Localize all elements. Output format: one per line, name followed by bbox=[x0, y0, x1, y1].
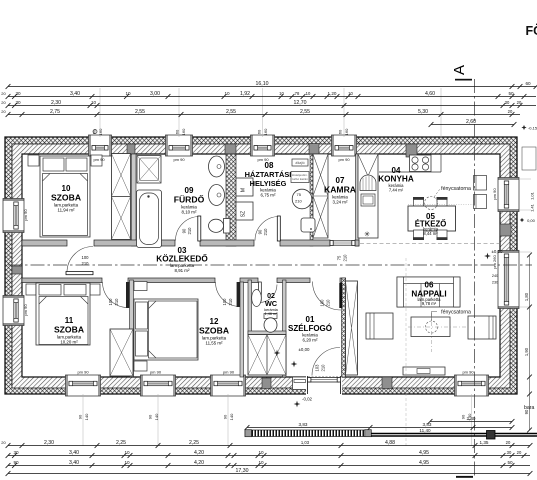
svg-text:8,10 m²: 8,10 m² bbox=[182, 210, 197, 215]
svg-text:10,20 m²: 10,20 m² bbox=[60, 340, 78, 345]
svg-text:3,40: 3,40 bbox=[70, 91, 80, 97]
svg-text:210: 210 bbox=[343, 254, 348, 262]
svg-text:10: 10 bbox=[124, 460, 130, 465]
partition P4 kamra/kitchen bbox=[356, 154, 360, 246]
shaft P3 utility/kamra with X bbox=[310, 154, 328, 246]
svg-text:210: 210 bbox=[295, 199, 302, 204]
kitchen counter vertical bbox=[358, 154, 378, 239]
wall exterior inner hatched band bbox=[5, 137, 517, 394]
guide verticals top bbox=[99, 88, 101, 137]
bath label bbox=[174, 186, 205, 215]
WC bottom wall bbox=[248, 331, 286, 335]
bath washbasins bbox=[209, 156, 225, 206]
svg-text:pm 90: pm 90 bbox=[23, 209, 28, 221]
svg-text:75: 75 bbox=[337, 255, 342, 260]
level marker szelfogo bbox=[274, 347, 310, 356]
grey block bottom wall nappali bbox=[382, 377, 392, 389]
svg-text:2,40: 2,40 bbox=[467, 416, 476, 421]
svg-text:1,03: 1,03 bbox=[301, 440, 310, 445]
svg-text:pm 90: pm 90 bbox=[257, 157, 269, 162]
svg-text:10: 10 bbox=[279, 91, 284, 96]
WC label bbox=[264, 293, 278, 316]
kamra label bbox=[324, 176, 356, 205]
living coffee table bbox=[408, 313, 468, 352]
svg-text:10: 10 bbox=[124, 450, 130, 455]
section line horizontal bbox=[8, 264, 532, 266]
svg-text:álkajtó: álkajtó bbox=[295, 161, 304, 165]
svg-text:6,20 m²: 6,20 m² bbox=[303, 338, 318, 343]
utility label bbox=[245, 161, 292, 198]
corridor label bbox=[156, 246, 208, 273]
door WC bbox=[259, 282, 278, 303]
svg-text:SZOBA: SZOBA bbox=[54, 325, 84, 335]
scale bar bbox=[245, 430, 371, 437]
svg-text:10: 10 bbox=[258, 450, 264, 455]
dimension row R4 bbox=[1, 440, 532, 448]
partition P5 room11/room12 bbox=[130, 280, 134, 377]
window W2 top (bath) bbox=[166, 135, 193, 156]
living TV board bbox=[403, 367, 445, 375]
utility boiler circle bbox=[292, 189, 312, 209]
grey block top wall P1 bbox=[127, 144, 135, 154]
svg-text:8,44 m²: 8,44 m² bbox=[423, 231, 438, 236]
WC toilet bbox=[264, 314, 277, 333]
svg-text:10: 10 bbox=[91, 100, 97, 105]
svg-text:4,20: 4,20 bbox=[194, 460, 204, 466]
door room 12 bbox=[216, 282, 241, 307]
dining chairs top bbox=[413, 197, 448, 207]
svg-text:20: 20 bbox=[1, 91, 6, 96]
svg-text:1,20: 1,20 bbox=[328, 91, 337, 96]
utility boiler box bbox=[291, 172, 309, 183]
svg-text:78: 78 bbox=[295, 91, 300, 96]
svg-text:90: 90 bbox=[461, 414, 466, 419]
corridor bottom wall segments bbox=[22, 278, 102, 283]
entrance door arc bbox=[312, 348, 340, 376]
window W1 top (room 10) bbox=[89, 135, 112, 156]
svg-text:20: 20 bbox=[506, 440, 511, 445]
door bath bbox=[176, 216, 201, 241]
right top white box bbox=[522, 147, 536, 170]
svg-text:20: 20 bbox=[1, 100, 6, 105]
svg-text:20: 20 bbox=[1, 109, 6, 114]
living sofa bbox=[397, 277, 460, 307]
wall exterior outer dotted band bbox=[5, 137, 517, 394]
dining skylight fenycsatorna bbox=[408, 186, 474, 210]
svg-text:pm 90: pm 90 bbox=[338, 157, 350, 162]
svg-text:0,00: 0,00 bbox=[527, 218, 536, 223]
svg-text:06: 06 bbox=[425, 281, 434, 290]
dimension row T1 bbox=[6, 81, 537, 89]
bath shower bbox=[137, 156, 161, 184]
door room 11 bbox=[103, 282, 130, 308]
svg-text:11,55 m²: 11,55 m² bbox=[205, 341, 223, 346]
svg-text:1,01: 1,01 bbox=[530, 191, 535, 200]
dining label bbox=[415, 212, 447, 236]
svg-text:WC: WC bbox=[265, 299, 278, 308]
svg-text:60: 60 bbox=[338, 129, 343, 134]
svg-text:pm 90: pm 90 bbox=[23, 304, 28, 316]
svg-text:100: 100 bbox=[320, 299, 325, 307]
utility top box bbox=[292, 159, 308, 166]
window LW1 left (room 10) bbox=[3, 199, 24, 233]
svg-text:3,83: 3,83 bbox=[423, 422, 432, 427]
svg-text:210: 210 bbox=[326, 299, 331, 307]
dimension row R6 bbox=[6, 460, 530, 468]
svg-text:8,91 m²: 8,91 m² bbox=[175, 268, 190, 273]
dimension row 3,83 bbox=[245, 422, 515, 430]
grey block top wall P2 bbox=[225, 144, 236, 154]
svg-text:FÖL: FÖL bbox=[526, 23, 537, 38]
svg-text:4,60: 4,60 bbox=[425, 91, 435, 97]
WC right wall bbox=[283, 280, 287, 377]
svg-text:5,30: 5,30 bbox=[418, 109, 428, 115]
svg-text:100: 100 bbox=[82, 255, 90, 260]
svg-text:210: 210 bbox=[187, 227, 192, 235]
svg-text:100: 100 bbox=[108, 298, 113, 306]
svg-text:6,75 m²: 6,75 m² bbox=[261, 193, 276, 198]
dimension row R7 bbox=[6, 468, 533, 476]
svg-text:KÖZLEKEDŐ: KÖZLEKEDŐ bbox=[156, 253, 208, 264]
partition P2 bath/utility bbox=[226, 154, 236, 246]
svg-text:140: 140 bbox=[229, 413, 234, 420]
svg-text:240: 240 bbox=[492, 274, 498, 278]
svg-text:A: A bbox=[451, 65, 468, 75]
grey block left wall bbox=[12, 266, 22, 274]
svg-text:turbó kazán: turbó kazán bbox=[292, 177, 308, 181]
svg-text:75: 75 bbox=[297, 192, 302, 197]
svg-text:2,25: 2,25 bbox=[116, 440, 126, 446]
svg-text:SZOBA: SZOBA bbox=[51, 193, 81, 203]
svg-text:HÁZTARTÁSI: HÁZTARTÁSI bbox=[245, 170, 292, 179]
svg-text:1,46 m²: 1,46 m² bbox=[265, 312, 279, 316]
entrance door opening bottom wall bbox=[306, 376, 342, 395]
grey block top wall shaft bbox=[309, 144, 319, 155]
svg-text:160: 160 bbox=[98, 128, 103, 135]
svg-text:16,10: 16,10 bbox=[256, 81, 269, 87]
dashed boundary konyha/etkezo bbox=[360, 243, 500, 245]
svg-text:3,00: 3,00 bbox=[150, 91, 160, 97]
svg-text:4,95: 4,95 bbox=[419, 450, 429, 456]
svg-text:pm 90: pm 90 bbox=[223, 370, 235, 375]
thick double line 11,40 bbox=[371, 428, 537, 439]
room 12 nightstands bbox=[134, 282, 147, 291]
corridor top wall segments bbox=[22, 240, 67, 246]
WC basin bbox=[252, 290, 262, 307]
window W3 top (utility) bbox=[251, 135, 275, 156]
living label bbox=[411, 281, 446, 307]
svg-text:20: 20 bbox=[508, 109, 513, 114]
wardrobe szelfogo/nappali tall X bbox=[346, 281, 358, 375]
svg-text:1,41: 1,41 bbox=[530, 203, 535, 212]
svg-text:10: 10 bbox=[306, 91, 311, 96]
svg-text:103: 103 bbox=[315, 364, 320, 372]
window BW2 bottom (room 12) bbox=[141, 375, 176, 396]
entrance sidelight panel bbox=[293, 377, 308, 390]
living armchair right bbox=[468, 316, 496, 339]
dining sideboard right wall bbox=[474, 176, 487, 209]
svg-text:SZOBA: SZOBA bbox=[199, 326, 229, 336]
level marker szelfogo 2 bbox=[291, 361, 298, 368]
svg-text:90: 90 bbox=[182, 228, 187, 233]
svg-text:2,30: 2,30 bbox=[44, 440, 54, 446]
room 10 nightstands bbox=[28, 155, 39, 166]
svg-text:KAMRA: KAMRA bbox=[324, 185, 356, 195]
svg-text:✳: ✳ bbox=[364, 231, 370, 239]
svg-text:7,44 m²: 7,44 m² bbox=[389, 188, 404, 193]
svg-text:12,70: 12,70 bbox=[294, 100, 307, 106]
dimension row R5 bbox=[6, 450, 530, 458]
room 10 wardrobe X bbox=[112, 154, 131, 240]
window LW2 left (room 11) bbox=[3, 296, 24, 326]
utility washer/dryer bbox=[236, 178, 253, 220]
svg-text:1,80: 1,80 bbox=[524, 292, 529, 301]
svg-text:pm 90: pm 90 bbox=[77, 370, 89, 375]
svg-text:60: 60 bbox=[175, 129, 180, 134]
svg-text:60: 60 bbox=[257, 129, 262, 134]
partition P1 room10/bath bbox=[132, 154, 137, 246]
room 10 bed bbox=[40, 156, 90, 237]
svg-text:FÜRDŐ: FÜRDŐ bbox=[174, 194, 205, 205]
svg-text:210: 210 bbox=[114, 298, 119, 306]
window RW2 right (living) bbox=[498, 251, 519, 309]
window W4 top (kamra) bbox=[332, 135, 357, 156]
svg-text:3,83: 3,83 bbox=[299, 422, 308, 427]
svg-text:pm 90: pm 90 bbox=[93, 157, 105, 162]
svg-text:2,55: 2,55 bbox=[226, 109, 236, 115]
chimney vent marker top-left bbox=[93, 130, 97, 134]
svg-text:pm 260: pm 260 bbox=[492, 255, 497, 269]
svg-text:160: 160 bbox=[181, 128, 186, 135]
room 10 label bbox=[51, 184, 81, 213]
svg-text:230: 230 bbox=[492, 281, 498, 285]
svg-text:100: 100 bbox=[222, 298, 227, 306]
right vertical dim chain bbox=[524, 253, 532, 433]
dimension row T2 bbox=[1, 91, 536, 99]
dimension row T3 bbox=[1, 100, 536, 108]
room 12 label bbox=[199, 317, 229, 346]
kamra door closed in opening bbox=[330, 241, 355, 262]
dimension row T4 bbox=[1, 109, 520, 117]
dining chairs bottom bbox=[413, 230, 448, 240]
svg-text:90: 90 bbox=[13, 460, 19, 465]
dimension row terrace 2,40 bbox=[428, 416, 515, 424]
bath tub bbox=[137, 190, 162, 248]
svg-text:11,94 m²: 11,94 m² bbox=[57, 208, 75, 213]
right guide lines bbox=[519, 178, 531, 180]
svg-text:fénycsatorna: fénycsatorna bbox=[441, 186, 471, 192]
svg-text:160: 160 bbox=[344, 128, 349, 135]
svg-text:2,25: 2,25 bbox=[189, 440, 199, 446]
utility sink square bbox=[301, 218, 315, 232]
svg-text:fénycsatorna: fénycsatorna bbox=[441, 310, 471, 316]
kitchen counter top + stove bbox=[379, 154, 441, 172]
svg-text:10: 10 bbox=[258, 460, 264, 465]
living skylight fenycsatorna label bbox=[432, 310, 471, 322]
svg-text:M: M bbox=[241, 188, 247, 192]
svg-text:140: 140 bbox=[154, 413, 159, 420]
section line A vertical bbox=[451, 65, 475, 478]
svg-text:20: 20 bbox=[517, 100, 522, 105]
window BW4 bottom (living) bbox=[455, 375, 489, 396]
grey block bottom wall left bbox=[262, 378, 271, 389]
svg-text:10: 10 bbox=[125, 91, 131, 96]
room 11 nightstands bbox=[26, 284, 36, 295]
svg-text:±0,00: ±0,00 bbox=[492, 249, 504, 254]
svg-text:1,90: 1,90 bbox=[524, 347, 529, 356]
grey block right wall bbox=[500, 224, 511, 236]
svg-text:4,20: 4,20 bbox=[194, 450, 204, 456]
svg-text:bara: bara bbox=[524, 405, 534, 411]
svg-text:160: 160 bbox=[263, 128, 268, 135]
svg-text:140: 140 bbox=[84, 413, 89, 420]
svg-text:pm 90: pm 90 bbox=[462, 370, 474, 375]
svg-text:90: 90 bbox=[78, 414, 83, 419]
svg-text:50: 50 bbox=[507, 460, 513, 465]
svg-text:01: 01 bbox=[306, 315, 315, 324]
svg-text:2,75: 2,75 bbox=[50, 109, 60, 115]
svg-text:20: 20 bbox=[517, 450, 522, 455]
window RW1 right (dining) bbox=[498, 178, 519, 212]
svg-text:08: 08 bbox=[265, 161, 274, 170]
kitchen label bbox=[378, 166, 414, 193]
svg-text:50: 50 bbox=[508, 91, 514, 96]
svg-text:2,60: 2,60 bbox=[466, 119, 476, 125]
szelfogo label bbox=[288, 315, 332, 343]
partition P6 room12/shaft bbox=[240, 282, 244, 377]
svg-text:2,55: 2,55 bbox=[300, 109, 310, 115]
svg-text:10: 10 bbox=[348, 91, 353, 96]
window BW3 bottom (room 12 right) bbox=[211, 375, 246, 396]
svg-text:90: 90 bbox=[258, 229, 263, 234]
svg-text:±0,00: ±0,00 bbox=[299, 347, 311, 352]
svg-text:-0,02: -0,02 bbox=[302, 397, 313, 402]
svg-text:30: 30 bbox=[13, 450, 19, 455]
svg-text:30: 30 bbox=[507, 450, 512, 455]
szelfogo right wall bbox=[342, 278, 346, 377]
svg-text:11,40: 11,40 bbox=[419, 428, 431, 433]
svg-text:3,24 m²: 3,24 m² bbox=[333, 200, 348, 205]
window BW1 bottom (room 11) bbox=[66, 375, 101, 396]
svg-text:30: 30 bbox=[15, 91, 21, 96]
svg-text:2,55: 2,55 bbox=[135, 109, 145, 115]
level marker nappali right bbox=[484, 249, 503, 259]
bath toilet bbox=[209, 219, 231, 234]
svg-text:1,92: 1,92 bbox=[240, 91, 250, 97]
svg-text:30: 30 bbox=[15, 100, 21, 105]
svg-text:90: 90 bbox=[223, 414, 228, 419]
svg-text:SZ: SZ bbox=[241, 211, 247, 217]
svg-text:2,30: 2,30 bbox=[51, 100, 61, 106]
grey block kitchen chimney bbox=[406, 144, 417, 157]
door utility bbox=[255, 216, 280, 241]
room 11 label bbox=[54, 316, 84, 345]
svg-text:90: 90 bbox=[148, 414, 153, 419]
room 11 wardrobe X bbox=[110, 329, 133, 376]
svg-text:17,30: 17,30 bbox=[236, 468, 249, 474]
room 11 bed bbox=[36, 283, 90, 345]
svg-text:20: 20 bbox=[1, 440, 6, 445]
svg-text:4,88: 4,88 bbox=[385, 440, 395, 446]
svg-text:30: 30 bbox=[505, 100, 510, 105]
svg-text:-0,15: -0,15 bbox=[528, 126, 537, 131]
door room 10 (leaf+arc in corridor) bbox=[66, 247, 93, 275]
living armchair left bbox=[366, 313, 393, 339]
WC left wall bbox=[248, 280, 252, 334]
svg-text:60: 60 bbox=[525, 81, 531, 86]
svg-text:3,40: 3,40 bbox=[69, 460, 79, 466]
svg-text:3,40: 3,40 bbox=[69, 450, 79, 456]
dimension row T5 bbox=[429, 119, 517, 127]
svg-text:pm 90: pm 90 bbox=[173, 157, 185, 162]
svg-text:4,95: 4,95 bbox=[419, 460, 429, 466]
svg-text:1,35: 1,35 bbox=[480, 440, 489, 445]
svg-text:210: 210 bbox=[263, 228, 268, 236]
level marker outside entrance bbox=[294, 397, 313, 408]
dining table bbox=[408, 206, 456, 231]
wardrobe below WC with X cells bbox=[248, 335, 286, 376]
svg-text:210: 210 bbox=[228, 298, 233, 306]
room 12 bed bbox=[134, 299, 198, 360]
svg-text:10: 10 bbox=[224, 91, 230, 96]
svg-text:210: 210 bbox=[321, 364, 326, 372]
svg-text:9,78 m²: 9,78 m² bbox=[422, 301, 437, 306]
guide verticals bottom bbox=[82, 394, 84, 446]
svg-text:pm 90: pm 90 bbox=[150, 370, 162, 375]
svg-text:pm 90: pm 90 bbox=[492, 188, 497, 200]
door szelfogo top bbox=[313, 282, 343, 311]
